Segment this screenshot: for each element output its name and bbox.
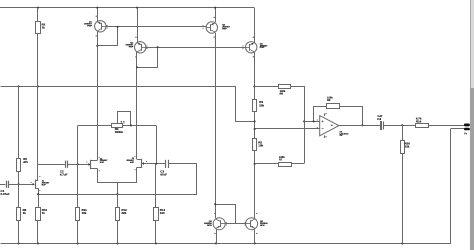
wire R13 to bottom rail [155,221,157,244]
wire R3 network [78,125,112,127]
transistor J3 2N5457 [141,159,143,168]
resistor R9 [17,208,21,221]
wire R9 to bottom rail [18,221,20,243]
wire opamp upper input [304,121,320,123]
wire J1 drain to C2 [38,164,65,166]
wire Q1 base tie [98,27,118,46]
wire input left [0,184,5,186]
pin marks U1 [325,113,326,114]
wire R1 top lead [37,8,39,22]
wire R16 down [402,125,404,140]
node Q2 collector junction [136,66,138,68]
node bottom rail / R9 [18,242,20,244]
wire R10 to bottom rail [37,221,39,243]
capacitor C2 [65,161,67,168]
wire C4 to R14 [384,125,416,127]
wire feedback bus down [155,164,157,207]
svg-text:PNP: PNP [260,46,265,49]
wire R2 bus upper [18,86,20,158]
node base tie drop [117,26,119,28]
svg-text:R14: R14 [416,119,422,123]
node J3 gate / feedback [155,163,157,165]
svg-text:10k: 10k [258,144,263,148]
wire feedback tap [314,107,327,122]
wire V+ top rail [0,7,254,9]
node output divider [401,124,403,126]
wire R6 to corner [291,87,305,164]
svg-text:PNP: PNP [222,28,227,31]
wire R3 bypass loop [118,112,131,126]
svg-text:1k: 1k [23,211,27,215]
wire R2 to input node [18,172,20,208]
node opamp plus tap [303,120,305,122]
svg-text:220: 220 [121,211,126,215]
svg-text:NPN: NPN [207,224,212,227]
node R3 loop [130,124,132,126]
resistor R14 [416,124,429,128]
svg-text:OP: OP [340,134,344,137]
capacitor C3 [165,160,167,168]
node gate bias / R bus [77,163,79,165]
svg-text:0.47uF: 0.47uF [1,192,10,196]
resistor R8 [327,104,340,109]
svg-text:100: 100 [160,211,165,215]
node Q4 collector / mid wire [253,85,255,87]
node bottom rail / R11 [77,242,79,244]
node mid rail / R2 bus [18,85,20,87]
node rail Q3 [214,7,216,9]
svg-text:PNP: PNP [129,45,134,48]
node opamp feed upper [254,120,256,122]
node top rail / R1 [37,7,39,9]
transistor Q5 2N3904 [213,218,225,230]
wire Q5 base join [225,223,246,225]
wire feedback lower [255,163,305,165]
node input / R2 R9 [18,183,20,185]
svg-text:1k: 1k [42,211,46,215]
wire source tap down [117,183,119,207]
transistor J2 2N5457 [90,160,92,169]
wire Q5 base tie [216,205,236,224]
wire Q5 emitter [216,229,218,243]
wire Q3 emitter to rail [215,8,217,22]
resistor R6 [279,85,291,89]
svg-text:PNP: PNP [87,24,92,27]
transistor Q6 2N3904 [246,218,258,230]
node feedback / output [361,124,363,126]
svg-text:10k: 10k [82,211,87,215]
resistor R7 [279,163,292,167]
node Q5 tie on collector [214,203,216,205]
capacitor C4 output [381,122,382,130]
wire J2 source down [97,168,99,183]
scrollbar thumb [470,88,474,250]
svg-text:R7: R7 [279,158,283,161]
wire R11 bus top corner [77,126,79,208]
resistor R16 [401,141,405,154]
op-amp U1 triangle [320,116,339,136]
wire R3 right [123,125,156,127]
wire R4 down [254,112,256,139]
svg-text:NJF: NJF [100,161,105,164]
wire J3 source down [136,167,138,183]
wire J3 gate right [144,163,165,165]
wire R5 down to Q6 [254,151,256,218]
wire R11 to bottom rail [77,221,79,243]
wire Q3 collector bus [215,33,217,218]
capacitor C1 input [6,181,8,188]
pin marks J1 [39,176,40,177]
wire C3 to corner [39,164,197,195]
wire Q2 base tie [137,48,158,68]
wire R12 to bottom rail [117,221,119,243]
resistor R13 [154,208,159,221]
node R5 / feedback wire [254,163,256,165]
wire bottom rail [1,129,451,244]
resistor R3 [112,124,123,128]
node bottom rail / R10 [37,242,39,244]
wire Q1 collector to J2 drain [97,32,99,161]
resistor R2 [17,159,21,172]
wire input to J1 gate [8,184,33,186]
scrollbar track [470,0,474,250]
resistor R1 [36,22,41,34]
resistor R4 [253,100,257,112]
resistor R5 [253,139,257,151]
wire V+ rail drop to Q4 [254,8,256,43]
pin marks Q1 [96,16,97,17]
op-amp plus glyph [322,121,324,123]
svg-text:47uF: 47uF [160,172,167,176]
transistor Q4 2N5087 [246,42,257,53]
wire pad return [451,128,464,130]
node top rail / Q1 emitter [96,7,98,9]
wire R16 to bottom rail [402,153,404,243]
wire opamp lower input [255,128,320,130]
svg-text:NJF: NJF [130,161,135,164]
transistor Q3 2N5087 [206,22,217,33]
wire Q4 collector down [254,52,256,99]
label R3 loop marks [121,121,122,122]
pin marks Q6 [256,213,257,214]
wire source join [98,182,137,184]
svg-text:22k: 22k [405,145,410,149]
node J1 source / wire [37,193,39,195]
transistor Q2 2N5087 [135,42,146,53]
node feedback tap [313,120,315,122]
node bottom rail / R16 [401,242,403,244]
node bottom rail / R12 [116,242,118,244]
pin marks Q2 [135,37,136,38]
node bottom rail / R13 [155,242,157,244]
node Q2 base tie [157,46,159,48]
node opamp feed lower [254,128,256,130]
node bottom rail / Q5 emitter [215,242,217,244]
wire C2 to J2 gate [68,164,90,166]
wire Q2 collector down to J3 drain [136,52,138,159]
wire Q6 emitter [254,229,256,243]
pin marks J2 [99,157,100,158]
svg-text:NJF: NJF [42,183,47,186]
pin marks J3 [135,156,136,157]
wire Q2 emitter to rail [137,8,139,43]
node J1 drain / C2 wire [37,164,39,166]
svg-text:R8: R8 [327,99,331,102]
wire Q1 emitter to rail [97,8,99,21]
node mid rail / R1 bus [37,85,39,87]
resistor R10 [36,208,41,221]
wire mid to R6 [254,86,278,88]
op-amp power stubs [324,113,326,116]
node bottom rail / Q6 emitter [254,242,256,244]
wire Q1 base rail [106,26,206,28]
resistor R11 [76,208,80,221]
pin marks Q3 [214,17,215,18]
node top rail / Q2 emitter [136,7,138,9]
svg-text:R6: R6 [280,93,284,96]
wire feedback to output [340,107,363,126]
port pad out- [464,128,470,131]
wire R network down to J3 gate node [156,125,158,163]
node Q1 base tie [96,45,98,47]
node source tap / wire [116,193,118,195]
svg-text:47k: 47k [23,160,28,164]
pin marks Q4 [253,37,254,38]
svg-text:TV: TV [464,133,467,136]
scrollbar border [470,0,472,250]
wire opamp output [339,125,380,127]
svg-text:4.7uF: 4.7uF [60,172,68,176]
port pad out+ [464,124,470,127]
svg-text:C4: C4 [377,117,381,121]
wire mid rail [1,87,255,122]
op-amp minus glyph [322,128,324,130]
svg-text:1MEG: 1MEG [115,130,124,134]
wire R14 to pad [428,125,464,127]
resistor R12 [116,208,120,221]
wire R1 down to J1 drain [37,33,39,180]
svg-text:NPN: NPN [260,224,265,227]
pin marks Q5 [214,213,215,214]
wire J1 source down [38,188,40,207]
transistor Q1 2N5087 [95,21,106,32]
svg-text:22k: 22k [259,103,264,107]
svg-text:1k: 1k [42,26,46,30]
transistor J1 2N5457 [35,180,37,189]
wire Q2 base rail [146,47,246,49]
